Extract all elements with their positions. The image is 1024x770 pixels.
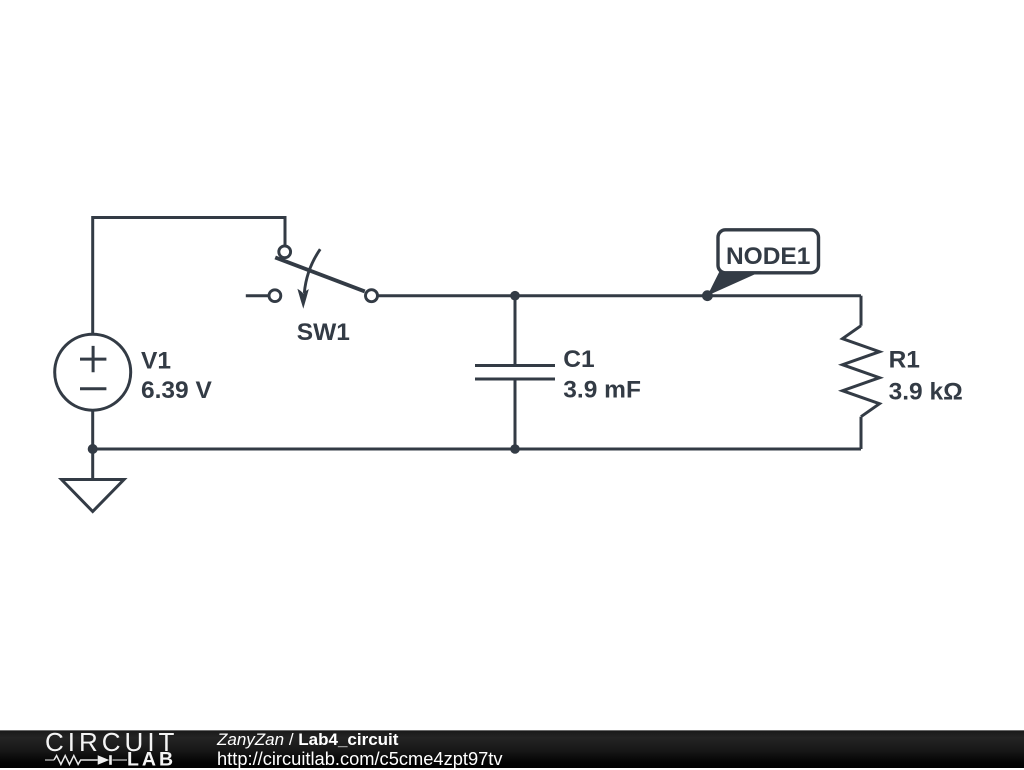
- svg-text:R1: R1: [889, 347, 920, 374]
- wire: [93, 218, 285, 337]
- resistor R1: [843, 296, 963, 449]
- svg-text:SW1: SW1: [297, 319, 350, 346]
- CircuitLab logo: [42, 730, 182, 768]
- svg-text:V1: V1: [141, 347, 171, 374]
- ground: [62, 449, 125, 512]
- wire: [91, 410, 94, 449]
- wire: [93, 448, 861, 451]
- svg-text:6.39 V: 6.39 V: [141, 377, 212, 404]
- svg-text:C1: C1: [563, 346, 594, 373]
- switch SW1: [246, 246, 378, 346]
- footer text: [217, 730, 503, 770]
- wire: [378, 294, 861, 297]
- svg-text:3.9 kΩ: 3.9 kΩ: [889, 379, 963, 406]
- capacitor C1: [475, 296, 641, 449]
- junction: [510, 291, 520, 301]
- svg-text:NODE1: NODE1: [726, 243, 810, 270]
- footer bar: [0, 730, 1024, 768]
- svg-text:LAB: LAB: [127, 749, 176, 769]
- node NODE1: [702, 230, 819, 301]
- svg-text:3.9 mF: 3.9 mF: [563, 377, 641, 404]
- junction: [510, 444, 520, 454]
- junction: [88, 444, 98, 454]
- voltage source V1: [55, 334, 213, 410]
